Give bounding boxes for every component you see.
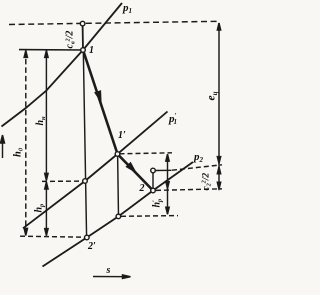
dimension line e (energy) and c2^2/2 (218, 23, 220, 190)
wire: dashed level line at node 2 (156, 189, 222, 191)
wavefront p1 line (83, 3, 122, 50)
wire: dashed level line left of circle node B (42, 180, 83, 182)
svg-text:1′: 1′ (118, 130, 126, 141)
node 1 (81, 48, 86, 53)
ray segment 1prime to 2 (118, 154, 154, 191)
svg-text:1: 1 (89, 45, 94, 56)
node 2prime (85, 235, 90, 240)
dimension line hp-prime (167, 154, 169, 214)
left reference arrow (2, 136, 4, 158)
wire: shallow line into node 1 from lower-left (2, 50, 84, 127)
wire: vertical from circle on datum down to node 1 (82, 26, 84, 50)
wavefront p2 line (43, 162, 194, 267)
svg-text:s: s (106, 265, 111, 276)
dimension line hp (45, 182, 47, 236)
node 2 (151, 188, 156, 193)
node 1prime (115, 152, 120, 157)
wire: still-water line at section 1 (19, 49, 83, 51)
dimension line hH (45, 50, 47, 180)
wire: dashed level line right of node 1prime (120, 153, 173, 154)
wire: dashed bottom line at p2/1prime crossing (121, 215, 178, 218)
wire: energy level line at section 2 (156, 169, 172, 171)
energy point above node 2 (151, 168, 156, 173)
circle node B on p1prime (83, 179, 88, 184)
wire: top datum dashed line (initial energy level) (9, 21, 220, 24)
s axis arrow (93, 276, 129, 278)
wire: vertical from node 1 down to node 2prime (83, 50, 86, 238)
wire: vertical from node 2 up to energy point (152, 171, 154, 191)
dimension line h0 (25, 50, 27, 235)
svg-text:2: 2 (139, 183, 145, 194)
svg-text:2′: 2′ (87, 241, 96, 252)
wire: vertical from node 1prime down to p2 line (117, 154, 120, 216)
wavefront p1prime line (23, 112, 168, 229)
ray segment 1 to 1prime (83, 50, 118, 154)
circle node C on p2 (116, 214, 121, 219)
circle on datum above node 1 (80, 21, 85, 26)
svg-text:p′1: p′1 (168, 112, 177, 126)
wire: dashed bottom line at node 2prime (20, 236, 85, 237)
